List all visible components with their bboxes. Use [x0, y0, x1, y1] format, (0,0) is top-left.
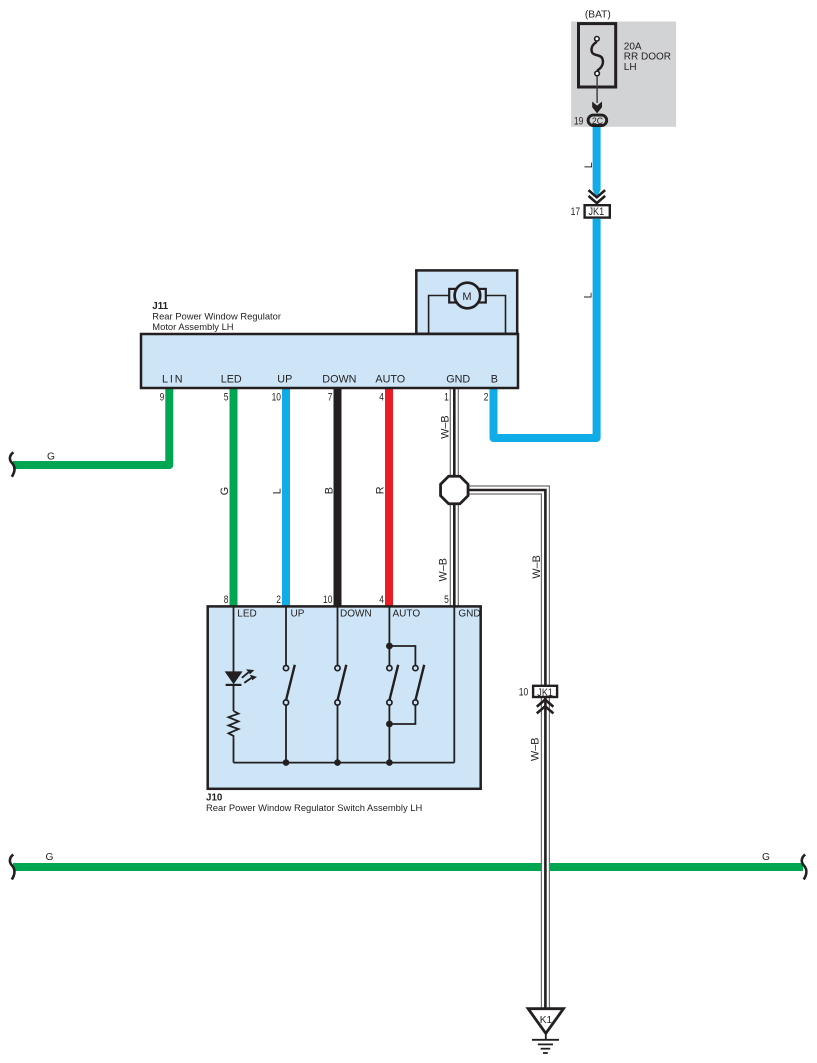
svg-text:19: 19 [574, 116, 584, 128]
svg-text:Rear Power Window Regulator Sw: Rear Power Window Regulator Switch Assem… [206, 802, 422, 813]
J11 Rear Power Window Regulator Motor Assembly LH box [141, 334, 518, 388]
svg-text:JK1: JK1 [589, 206, 605, 218]
svg-text:G: G [46, 852, 54, 863]
svg-text:M: M [462, 291, 471, 303]
resistor to bus wire [233, 737, 235, 762]
svg-text:W–B: W–B [530, 738, 542, 761]
svg-text:LED: LED [221, 374, 242, 386]
junction node octagon [441, 476, 469, 504]
wire G from left edge to J11 pin LIN [13, 387, 169, 465]
svg-text:DOWN: DOWN [322, 374, 356, 386]
GND branch wire [453, 606, 455, 763]
svg-text:UP: UP [291, 608, 305, 619]
wire label W-B (J10 GND lower) [438, 558, 450, 581]
bottom green bus wire G [13, 863, 803, 871]
connector chevron down [589, 190, 606, 203]
rotated wire label G [219, 487, 231, 495]
LED to resistor wire [233, 685, 235, 711]
svg-text:AUTO: AUTO [375, 374, 405, 386]
svg-text:1: 1 [444, 391, 449, 403]
svg-text:8: 8 [224, 594, 229, 606]
svg-text:(BAT): (BAT) [585, 9, 611, 20]
svg-text:10: 10 [272, 391, 281, 403]
svg-text:UP: UP [277, 374, 292, 386]
svg-text:R: R [375, 486, 387, 494]
J10 Rear Power Window Regulator Switch Assembly LH box [208, 606, 481, 788]
motor box of J11 [416, 270, 517, 333]
svg-text:LIN: LIN [162, 374, 185, 386]
svg-text:JK1: JK1 [537, 687, 553, 699]
wire label G bottom-left [46, 852, 54, 863]
motor M circle [455, 283, 481, 309]
rotated wire label R [375, 486, 387, 494]
svg-text:5: 5 [224, 391, 229, 403]
J11 pin numbers [160, 391, 489, 403]
arrow from fuse to connector 2C [592, 76, 602, 113]
LED branch wire [233, 606, 235, 672]
DOWN switch [335, 606, 346, 763]
wire label W-B (right vertical lower) [530, 738, 542, 761]
connector oval 2C pin 19 [574, 115, 607, 128]
wire label L [583, 162, 595, 168]
svg-text:LH: LH [624, 62, 637, 73]
svg-text:9: 9 [160, 391, 165, 403]
svg-text:L: L [583, 292, 595, 298]
wire label G (LIN) [47, 451, 55, 462]
wire L from fuse to JK1 [593, 126, 601, 198]
wire W-B from J11 GND through junction to J10 GND [450, 387, 459, 607]
wire W-B from junction node to ground K1 [454, 490, 545, 1010]
LED diode symbol [225, 671, 243, 685]
wire label W-B (J11 GND upper) [439, 415, 451, 438]
motor wiring loop [429, 296, 506, 335]
fuse 20A RR DOOR LH [579, 24, 672, 87]
connector chevron up [537, 700, 554, 714]
svg-text:GND: GND [458, 608, 480, 619]
J10 pin labels [237, 608, 480, 619]
resistor [229, 711, 239, 737]
svg-text:AUTO: AUTO [393, 608, 421, 619]
AUTO junction dots [386, 643, 393, 728]
junction connector JK1 pin 17 [571, 205, 610, 218]
rotated wire label L [271, 488, 283, 494]
svg-text:Motor Assembly LH: Motor Assembly LH [152, 321, 233, 332]
wire label L (right vertical) [583, 292, 595, 298]
LED emission arrows [242, 669, 257, 683]
svg-text:LED: LED [237, 608, 256, 619]
wire B from J11 DOWN to J10 DOWN [334, 387, 342, 607]
bus junction dots [283, 759, 393, 766]
AUTO switch main branch [387, 606, 398, 763]
svg-text:G: G [47, 451, 55, 462]
svg-text:W–B: W–B [439, 415, 451, 438]
svg-text:4: 4 [379, 594, 384, 606]
wire L from J11 UP to J10 UP [282, 387, 290, 607]
continuation squiggle bottom-left [10, 855, 15, 880]
svg-text:W–B: W–B [438, 558, 450, 581]
svg-text:G: G [762, 852, 770, 863]
svg-text:L: L [271, 488, 283, 494]
continuation squiggle left (LIN) [10, 452, 15, 477]
svg-text:2C: 2C [592, 116, 604, 126]
bottom bus wire inside J10 [234, 762, 455, 764]
svg-text:10: 10 [323, 594, 332, 606]
wire L from JK1 to J11 pin B [494, 219, 597, 438]
fuse block gray background [571, 22, 676, 127]
svg-text:17: 17 [571, 206, 581, 218]
svg-text:7: 7 [328, 391, 333, 403]
svg-text:DOWN: DOWN [340, 608, 372, 619]
J11 pin labels [162, 374, 498, 386]
ground symbol K1 [528, 1009, 563, 1053]
svg-text:W–B: W–B [531, 555, 543, 578]
wire R from J11 AUTO to J10 AUTO [385, 387, 393, 607]
svg-text:GND: GND [446, 374, 470, 386]
wire label G bottom-right [762, 852, 770, 863]
wire G from J11 LED to J10 LED [230, 387, 238, 607]
junction connector JK1 pin 10 [519, 686, 557, 699]
svg-text:G: G [219, 487, 231, 495]
svg-text:2: 2 [484, 391, 489, 403]
svg-text:2: 2 [276, 594, 281, 606]
svg-text:B: B [491, 374, 498, 386]
label (BAT) [585, 9, 611, 20]
UP switch [283, 606, 294, 763]
wire label W-B (right vertical upper) [531, 555, 543, 578]
rotated wire label B [323, 487, 335, 494]
svg-text:K1: K1 [540, 1015, 553, 1026]
J11 title text [152, 301, 281, 332]
J10 title text [206, 793, 422, 813]
J10 pin numbers [224, 594, 449, 606]
svg-text:L: L [583, 162, 595, 168]
svg-text:4: 4 [379, 391, 384, 403]
svg-text:5: 5 [444, 594, 449, 606]
continuation squiggle bottom-right [802, 855, 807, 880]
AUTO switch parallel branch [389, 646, 424, 724]
svg-text:10: 10 [519, 687, 529, 699]
svg-text:B: B [323, 487, 335, 494]
motor brushes [449, 289, 486, 303]
